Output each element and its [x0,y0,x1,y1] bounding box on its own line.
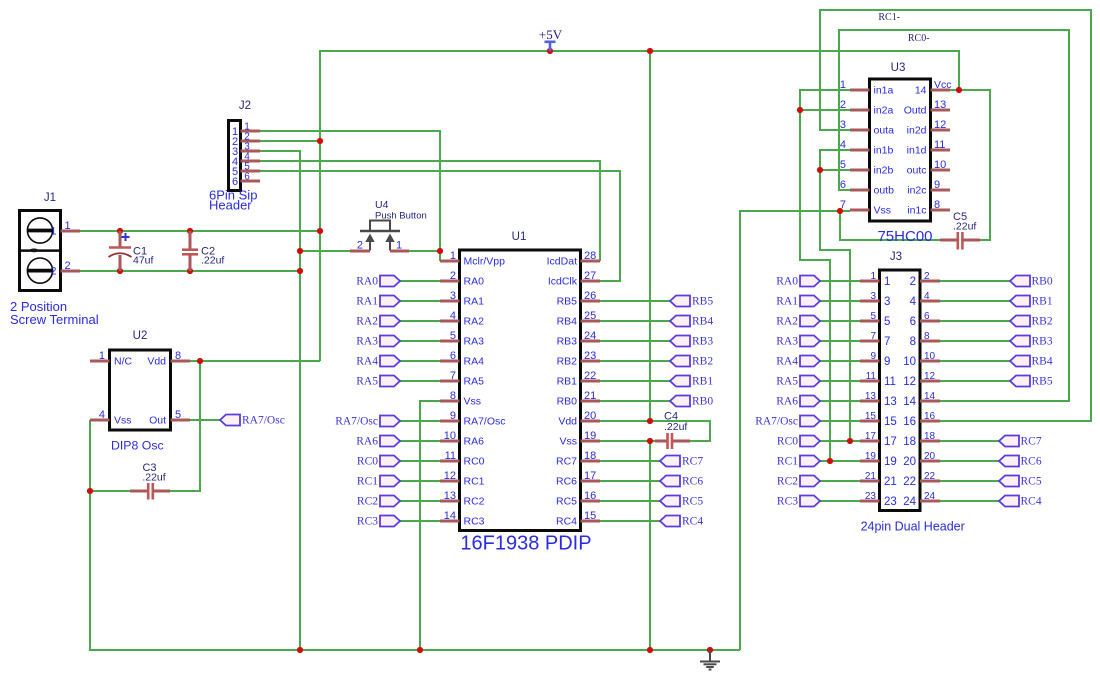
svg-text:Mclr/Vpp: Mclr/Vpp [464,256,506,268]
svg-text:RB3: RB3 [692,336,713,348]
svg-text:RA1: RA1 [356,296,378,308]
svg-text:8: 8 [175,350,181,362]
wire U2 Vdd to +5V [190,360,320,362]
svg-text:in1d: in1d [907,145,927,157]
net flag RC0 [357,456,400,468]
junction bottom rail J2pin3 [297,647,303,653]
IC U2 DIP8 oscillator body [110,350,171,430]
net flag RA0 [356,276,400,288]
net flag RC4 [999,496,1042,508]
junction U3 Vss C5 [837,208,843,214]
wire U1 RC5 pin [600,500,660,502]
wire RC1- net (U3 outa to J3 pin16) [820,10,1091,421]
svg-text:1: 1 [99,350,105,362]
svg-text:11: 11 [866,371,877,382]
svg-text:11: 11 [934,139,945,151]
svg-text:outc: outc [907,165,927,177]
net flag RC1 [777,456,820,468]
svg-text:RB0: RB0 [1032,276,1053,288]
svg-text:U2: U2 [133,330,148,342]
wire J3 RB4 [940,360,1010,362]
svg-text:RC7: RC7 [1021,436,1042,448]
IC U3 75HC00 body [870,79,931,221]
junction U3 Vcc [956,87,962,93]
wire U1 Vss pin19 GND drop [649,441,651,650]
connector J2 6-pin SIP header [229,121,241,191]
wire U1 RB4 pin [600,320,670,322]
junction GND row end [297,268,303,274]
J1 pin 1 stub [61,230,81,233]
wire RC0 net U3 in1b/in2b to J3 [820,150,850,441]
J3 external pin numbers [865,271,936,502]
svg-text:2: 2 [840,99,846,111]
svg-text:RC0: RC0 [357,456,378,468]
wire J3 RB1 [940,300,1010,302]
svg-text:RC2: RC2 [464,496,485,508]
svg-text:17: 17 [884,436,897,448]
svg-text:4: 4 [924,291,930,302]
svg-text:6: 6 [232,176,238,188]
wire J3 RC6 [940,460,999,462]
wire U1 RA3 pin [400,340,440,342]
wire U1 RB5 pin [600,300,670,302]
wire J3 RA7/Osc [820,420,860,422]
svg-text:RC6: RC6 [682,476,703,488]
svg-text:22: 22 [924,471,936,482]
wire J2 pin3 to GND [260,151,300,650]
wire U3 in2a branch [800,109,850,111]
svg-text:in2d: in2d [907,125,927,137]
wire J3 RC1 [820,460,860,462]
wire J3 RB2 [940,320,1010,322]
U2 pin numbers [99,350,181,421]
junction C2 bottom [187,268,193,274]
wire +5V drop to U1 Vdd [649,51,651,421]
svg-text:RC1: RC1 [464,476,485,488]
net flag RB1 [670,376,713,388]
U3 left pin stubs [850,90,870,210]
wire J3 RC4 [940,500,999,502]
junction C1 top [117,228,123,234]
wire J3 RA0 [820,280,860,282]
svg-text:27: 27 [584,270,596,282]
junction U3 in2b [817,167,823,173]
svg-text:1: 1 [870,271,876,282]
svg-text:RC0-: RC0- [908,33,930,44]
svg-text:IcdDat: IcdDat [547,256,577,268]
wire button pin2 to GND [300,250,350,252]
svg-text:2: 2 [924,271,930,282]
wire J3 RA2 [820,320,860,322]
wire U2 Out to flag [190,419,220,421]
svg-text:RB3: RB3 [557,336,578,348]
svg-text:22: 22 [903,476,916,488]
net flag RB4 [1010,356,1053,368]
svg-text:22: 22 [584,370,596,382]
wire J3 RB3 [940,340,1010,342]
wire U1 RB0 pin [600,400,670,402]
net flag RC6 [999,456,1042,468]
U4 pin 2 stub [350,250,370,253]
svg-text:23: 23 [884,496,897,508]
svg-text:3: 3 [840,119,846,131]
net flag RB3 [1010,336,1053,348]
svg-text:6: 6 [244,172,250,183]
svg-text:RC7: RC7 [682,456,703,468]
svg-text:16: 16 [584,490,596,502]
svg-text:RA6: RA6 [356,436,378,448]
svg-text:RA7/Osc: RA7/Osc [242,415,285,427]
svg-text:RA3: RA3 [464,336,485,348]
svg-text:5: 5 [884,316,890,328]
svg-text:1: 1 [64,220,70,232]
wire J2 pin2 to +5V [260,140,320,142]
C1 plus sign [122,233,130,241]
net flag RA2 [356,316,400,328]
wire U3 in2b branch [820,169,850,171]
svg-text:Vss: Vss [559,436,577,448]
svg-text:25: 25 [584,310,596,322]
svg-text:4: 4 [910,296,917,308]
wire J3 RA6 [820,400,860,402]
net flag RB2 [670,356,713,368]
wire U1 RA5 pin [400,380,440,382]
J3 right pin stubs [920,281,940,501]
svg-text:12: 12 [934,119,946,131]
svg-text:18: 18 [903,436,916,448]
wire U1 RA1 pin [400,300,440,302]
svg-text:13: 13 [865,391,877,402]
wire U1 RC2 pin [400,500,440,502]
svg-text:.22uf: .22uf [953,221,976,233]
wire U1 RA7/Osc pin [400,420,440,422]
net flag RB3 [670,336,713,348]
svg-text:RB5: RB5 [557,296,578,308]
svg-text:47uf: 47uf [133,255,154,267]
net flag RC2 [777,476,820,488]
svg-text:RC5: RC5 [1021,476,1042,488]
svg-text:19: 19 [865,451,877,462]
net flag RC6 [660,476,703,488]
wire J1 pin2 GND row [80,270,300,272]
wire U1 RC0 pin [400,460,440,462]
wire U3 Vss to C5 left [840,211,940,240]
svg-text:24: 24 [903,496,916,508]
junction button Mclr tap [437,248,443,254]
net flag RC7 [660,456,703,468]
svg-text:9: 9 [884,356,890,368]
J1 pin numbers [50,220,70,278]
svg-text:Push Button: Push Button [375,211,427,222]
svg-text:N/C: N/C [114,356,133,368]
wire U1 RC4 pin [600,520,660,522]
svg-text:26: 26 [584,290,596,302]
junction J2 pin2 +5V [317,138,323,144]
svg-text:RC1-: RC1- [878,12,900,23]
connector J3 24-pin dual header [880,270,921,511]
svg-text:RB4: RB4 [692,316,713,328]
junction U2 Vdd [197,358,203,364]
svg-text:U4: U4 [375,199,389,211]
wire U1 Vdd loop to C4 [600,421,710,441]
svg-text:6: 6 [910,316,916,328]
svg-text:5: 5 [840,159,846,171]
J2 pin stubs [241,131,261,181]
svg-text:Screw Terminal: Screw Terminal [10,312,99,327]
junction J3 RC1 [827,458,833,464]
svg-text:16: 16 [903,416,916,428]
svg-text:RA2: RA2 [356,316,378,328]
U2 pin 1 N/C stub [90,360,110,363]
wire U1 RA0 pin [400,280,440,282]
svg-text:RB3: RB3 [1032,336,1053,348]
svg-text:Vcc: Vcc [934,79,952,91]
svg-text:RA5: RA5 [776,376,798,388]
svg-text:RA7/Osc: RA7/Osc [464,416,506,428]
svg-text:Vss: Vss [464,396,482,408]
svg-text:RA5: RA5 [464,376,485,388]
svg-text:RB4: RB4 [1032,356,1053,368]
svg-text:5: 5 [870,311,876,322]
net flag RA7/Osc [220,415,285,427]
net flag RA5 [356,376,400,388]
svg-text:.22uf: .22uf [142,472,165,484]
net flag RA6 [356,436,400,448]
wire J3 RB5 [940,380,1010,382]
net flag RA4 [356,356,400,368]
svg-text:20: 20 [584,410,596,422]
wire U1 RC7 pin [600,460,660,462]
svg-text:RB5: RB5 [692,296,713,308]
svg-text:RC2: RC2 [777,476,798,488]
J2 caption 6Pin Sip Header [209,188,257,213]
wire U1 RB1 pin [600,380,670,382]
junction J3 RC0 [847,438,853,444]
svg-text:U3: U3 [891,62,906,74]
svg-text:RC3: RC3 [357,516,378,528]
junction +5V / U1 Vdd drop [647,48,653,54]
wire U3 Vss row [740,211,850,650]
net flag RA2 [776,316,820,328]
wire U1 RA4 pin [400,360,440,362]
svg-text:RC6: RC6 [1021,456,1042,468]
junction bottom rail GND symbol [707,647,713,653]
wire J1 pin1 +5V row [80,230,320,232]
svg-text:23: 23 [865,491,877,502]
svg-text:19: 19 [884,456,897,468]
svg-text:1: 1 [884,276,890,288]
svg-text:11: 11 [445,450,456,462]
svg-text:2: 2 [357,240,363,252]
svg-text:RC2: RC2 [357,496,378,508]
svg-text:12: 12 [903,376,916,388]
net flag RA3 [356,336,400,348]
wire U1 RC6 pin [600,480,660,482]
svg-text:7: 7 [870,331,876,342]
svg-text:.22uf: .22uf [664,421,687,433]
svg-text:J1: J1 [44,192,56,204]
ground symbol [700,650,720,670]
wire J3 RC5 [940,480,999,482]
svg-text:24pin Dual Header: 24pin Dual Header [861,520,965,534]
svg-text:15: 15 [865,411,877,422]
wire U2 Vdd to C3 right [170,361,200,491]
U2 pin names [114,356,166,427]
U3 left pin numbers [840,79,846,211]
svg-text:1: 1 [450,250,456,262]
svg-text:10: 10 [924,351,936,362]
+5V power symbol [539,27,563,51]
svg-text:12: 12 [444,470,456,482]
svg-text:RB0: RB0 [557,396,578,408]
svg-text:in1c: in1c [907,205,926,217]
svg-text:Vss: Vss [874,205,892,217]
net flag RA1 [776,296,820,308]
svg-text:17: 17 [584,470,596,482]
svg-text:RA7/Osc: RA7/Osc [755,416,798,428]
svg-text:18: 18 [584,450,596,462]
U1 left pin numbers [444,250,456,522]
svg-text:7: 7 [840,199,846,211]
svg-text:2: 2 [50,266,56,278]
svg-text:RA6: RA6 [776,396,798,408]
svg-text:1: 1 [50,226,56,238]
net flag RA1 [356,296,400,308]
svg-text:RA7/Osc: RA7/Osc [335,416,378,428]
svg-text:RC0: RC0 [777,436,798,448]
net flag RB2 [1010,316,1053,328]
svg-text:Vdd: Vdd [558,416,577,428]
svg-text:21: 21 [584,390,596,402]
svg-text:IcdClk: IcdClk [548,276,578,288]
wire U1 RC1 pin [400,480,440,482]
svg-text:16: 16 [924,411,936,422]
net flag RA7/Osc [755,416,820,428]
svg-text:19: 19 [584,430,596,442]
capacitor C5 .22uf [940,232,980,250]
U2 pin 8 Vdd stub [171,360,191,363]
svg-text:U1: U1 [512,231,527,243]
svg-text:Outd: Outd [904,105,927,117]
junction C2 top [187,228,193,234]
svg-text:14: 14 [924,391,936,402]
net flag RA3 [776,336,820,348]
svg-text:12: 12 [924,371,936,382]
wire J3 RC7 [940,440,999,442]
net flag RC5 [660,496,703,508]
svg-text:1: 1 [840,79,846,91]
wire J3 RA1 [820,300,860,302]
junction +5V row end [317,228,323,234]
svg-text:6: 6 [924,311,930,322]
svg-text:15: 15 [584,510,596,522]
wire U1 RB2 pin [600,360,670,362]
net flag RB5 [1010,376,1053,388]
U1 left pin stubs [440,261,460,521]
svg-text:2: 2 [64,260,70,272]
net flag RB1 [1010,296,1053,308]
svg-text:8: 8 [934,199,940,211]
svg-text:RC3: RC3 [777,496,798,508]
svg-text:17: 17 [865,431,877,442]
wire J3 RC0 [820,440,860,442]
svg-text:RC4: RC4 [682,516,703,528]
svg-text:6: 6 [840,179,846,191]
wire J3 RC3 [820,500,860,502]
svg-text:10: 10 [903,356,916,368]
svg-text:RC0: RC0 [464,456,485,468]
capacitor C1 47uf polarized [109,231,132,271]
U4 pin numbers [357,240,402,252]
svg-text:3: 3 [450,290,456,302]
svg-text:RB1: RB1 [1032,296,1053,308]
svg-text:20: 20 [903,456,916,468]
svg-text:8: 8 [450,390,456,402]
wire button pin1 to Mclr [409,250,440,252]
svg-text:Header: Header [209,198,252,213]
svg-text:outb: outb [874,185,895,197]
wire J3 RA4 [820,360,860,362]
svg-text:RA1: RA1 [464,296,485,308]
junction U1 Vss C4 [647,438,653,444]
svg-text:18: 18 [924,431,936,442]
junction C1 bottom [117,268,123,274]
svg-text:RA0: RA0 [356,276,378,288]
U2 pin 5 Out stub [171,419,191,422]
net flag RA5 [776,376,820,388]
svg-text:RA0: RA0 [776,276,798,288]
svg-text:in1a: in1a [874,85,894,97]
svg-text:4: 4 [840,139,846,151]
svg-text:5: 5 [450,330,456,342]
svg-text:in1b: in1b [874,145,894,157]
svg-text:14: 14 [444,510,456,522]
net flag RA0 [776,276,820,288]
svg-text:Vss: Vss [114,415,132,427]
U1 right pin stubs [581,261,601,521]
wire U1 RB3 pin [600,340,670,342]
svg-text:6: 6 [450,350,456,362]
wire J2 pin5 to IcdClk [260,171,620,281]
J1 caption 2 Position Screw Terminal [10,299,99,327]
svg-text:75HC00: 75HC00 [877,228,932,245]
svg-text:9: 9 [934,179,940,191]
net flag RC3 [357,516,400,528]
svg-text:RC4: RC4 [1021,496,1042,508]
svg-text:23: 23 [584,350,596,362]
net flag RA6 [776,396,820,408]
svg-text:RC5: RC5 [556,496,577,508]
J1 pin 2 stub [61,270,81,273]
capacitor C2 .22uf [182,231,198,271]
svg-text:28: 28 [584,250,596,262]
svg-text:RA6: RA6 [464,436,485,448]
svg-text:3: 3 [884,296,890,308]
U3 left pin names [874,85,895,217]
svg-text:RC5: RC5 [682,496,703,508]
net flag RC3 [777,496,820,508]
svg-text:+5V: +5V [539,27,563,42]
svg-text:RA3: RA3 [776,336,798,348]
junction C3 left GND [87,488,93,494]
J3 internal pin numbers [884,276,917,508]
svg-text:4: 4 [99,409,105,421]
junction bottom rail U1 Vss8 [417,647,423,653]
svg-text:DIP8 Osc: DIP8 Osc [111,439,164,453]
svg-text:9: 9 [450,410,456,422]
wire GND spine and bottom rail [90,420,740,650]
svg-text:13: 13 [884,396,897,408]
